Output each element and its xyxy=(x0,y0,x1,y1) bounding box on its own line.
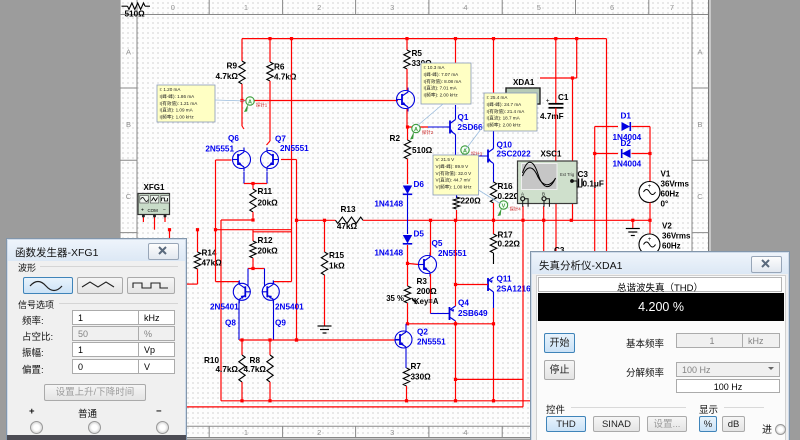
Q8 Q9 base link xyxy=(248,268,265,270)
resistor R8 xyxy=(269,340,271,355)
svg-text:I: 1.20 mA: I: 1.20 mA xyxy=(160,87,182,92)
svg-text:R7: R7 xyxy=(411,362,422,371)
svg-text:Q4: Q4 xyxy=(458,299,469,308)
note leader line xyxy=(215,100,246,101)
svg-text:XSC1: XSC1 xyxy=(541,150,562,159)
svg-text:R16: R16 xyxy=(498,182,513,191)
transistor Q5 2N5551 xyxy=(419,256,437,274)
oscilloscope feed wires xyxy=(522,206,524,220)
resistor R16 xyxy=(490,182,496,203)
svg-text:220Ω: 220Ω xyxy=(461,197,482,206)
svg-text:V(直流): 44.7 mV: V(直流): 44.7 mV xyxy=(436,177,472,184)
svg-text:B: B xyxy=(542,191,545,196)
svg-text:I(频率): 2.00 kHz: I(频率): 2.00 kHz xyxy=(487,121,522,128)
svg-text:探针1: 探针1 xyxy=(256,102,268,109)
svg-text:2SC2022: 2SC2022 xyxy=(497,150,532,159)
svg-text:+: + xyxy=(141,208,144,214)
svg-text:V(有效值): 32.0 V: V(有效值): 32.0 V xyxy=(436,170,473,177)
bottom rail upper xyxy=(221,400,532,402)
XDA1 instrument icon xyxy=(506,88,540,104)
svg-text:Key=A: Key=A xyxy=(414,297,439,306)
svg-text:36Vrms: 36Vrms xyxy=(662,232,691,241)
svg-text:D1: D1 xyxy=(621,112,632,121)
svg-text:510Ω: 510Ω xyxy=(412,146,433,155)
svg-text:I(峰-峰): 7.07 mA: I(峰-峰): 7.07 mA xyxy=(424,71,460,78)
svg-text:V1: V1 xyxy=(661,170,671,179)
svg-text:C3: C3 xyxy=(578,170,589,179)
svg-text:D6: D6 xyxy=(414,180,425,189)
svg-text:探针4: 探针4 xyxy=(510,206,522,213)
right column to sources xyxy=(649,127,651,182)
svg-text:60Hz: 60Hz xyxy=(662,242,681,251)
svg-text:0°: 0° xyxy=(661,200,669,209)
diode D2 xyxy=(595,153,618,155)
svg-text:+: + xyxy=(648,237,652,243)
vertical from rail to R12/XFG node xyxy=(291,39,293,282)
svg-text:Q9: Q9 xyxy=(275,319,286,328)
resistor R11 xyxy=(252,184,254,190)
svg-text:1N4004: 1N4004 xyxy=(613,160,642,169)
XFG1 function generator panel xyxy=(6,238,187,440)
svg-text:I(频率): 2.00 kHz: I(频率): 2.00 kHz xyxy=(424,91,459,98)
svg-text:+: + xyxy=(546,98,550,105)
svg-text:V(峰-峰): 89.9 V: V(峰-峰): 89.9 V xyxy=(436,163,470,170)
ground right xyxy=(632,220,634,228)
svg-text:R6: R6 xyxy=(274,63,285,72)
ground near R15 xyxy=(318,325,332,327)
transistor Q8 2N5401 xyxy=(233,283,250,300)
Q7 base column down to Q2 base wire xyxy=(281,159,297,161)
resistor R13 in mid rail xyxy=(297,219,336,221)
Q11 emitter down to bottom rail xyxy=(493,292,495,308)
svg-text:Q5: Q5 xyxy=(432,239,443,248)
svg-text:I(峰-峰): 1.86 mA: I(峰-峰): 1.86 mA xyxy=(160,93,196,100)
potentiometer R3 xyxy=(407,263,409,286)
wire to Q2 base xyxy=(239,339,395,341)
svg-text:V: V xyxy=(502,203,506,209)
resistor R14 xyxy=(197,230,199,252)
svg-text:60Hz: 60Hz xyxy=(661,190,680,199)
svg-text:6: 6 xyxy=(610,3,614,12)
svg-text:V2: V2 xyxy=(662,222,672,231)
svg-text:7: 7 xyxy=(670,3,674,12)
svg-text:20kΩ: 20kΩ xyxy=(258,247,279,256)
svg-text:2: 2 xyxy=(317,428,321,437)
output node wire xyxy=(408,323,494,325)
transistor input PNP xyxy=(397,91,415,109)
diode D6 xyxy=(403,186,412,195)
svg-text:4.7kΩ: 4.7kΩ xyxy=(216,72,239,81)
base wire to Q5 xyxy=(408,263,419,264)
svg-text:Q11: Q11 xyxy=(497,275,512,284)
svg-text:XDA1: XDA1 xyxy=(513,78,535,87)
Q6 base column / Q8 emitter xyxy=(216,159,232,161)
transistor Q6 2N5551 xyxy=(233,151,251,169)
svg-text:C: C xyxy=(126,192,132,201)
note probe voltage xyxy=(433,155,479,195)
svg-text:R8: R8 xyxy=(250,356,261,365)
note probe1 xyxy=(157,85,215,122)
svg-text:A: A xyxy=(248,99,252,105)
svg-text:Q1: Q1 xyxy=(458,113,469,122)
svg-text:I(有效值): 1.21 mA: I(有效值): 1.21 mA xyxy=(160,100,199,107)
svg-text:2SD66: 2SD66 xyxy=(458,123,483,132)
transistor Q9 2N5401 xyxy=(262,283,279,300)
svg-text:B: B xyxy=(126,120,131,129)
Q10 emitter to R16 xyxy=(493,164,495,183)
220 ohm resistor (label hidden) xyxy=(456,156,458,198)
probe 探针4 xyxy=(498,208,502,216)
svg-text:Q2: Q2 xyxy=(417,328,428,337)
svg-text:5: 5 xyxy=(537,3,541,12)
svg-text:R3: R3 xyxy=(417,277,428,286)
resistor R2 xyxy=(407,127,409,140)
Q5 collector to rail / emitter to Q4 base xyxy=(430,220,432,255)
transistor Q10 (2SC2022) xyxy=(487,150,489,163)
svg-text:XFG1: XFG1 xyxy=(144,183,165,192)
svg-text:A: A xyxy=(126,48,131,57)
svg-text:V: 21.5 V: V: 21.5 V xyxy=(436,157,456,162)
svg-text:0.22Ω: 0.22Ω xyxy=(498,240,521,249)
transistor Q1 (2SD66) xyxy=(449,121,451,134)
svg-text:36Vrms: 36Vrms xyxy=(661,180,690,189)
mid rail wire A xyxy=(363,219,650,221)
probe 探针1 xyxy=(244,104,248,112)
svg-text:4: 4 xyxy=(463,428,467,437)
emitter join wire of Q6 Q7 xyxy=(243,172,245,184)
svg-text:R17: R17 xyxy=(498,231,513,240)
svg-text:1N4148: 1N4148 xyxy=(374,200,403,209)
svg-text:2SB649: 2SB649 xyxy=(458,309,488,318)
svg-text:2N5551: 2N5551 xyxy=(205,145,234,154)
svg-text:I: 25.4 mA: I: 25.4 mA xyxy=(487,95,509,100)
svg-text:4: 4 xyxy=(463,3,467,12)
svg-text:4.7kΩ: 4.7kΩ xyxy=(274,73,297,82)
svg-text:4.7mF: 4.7mF xyxy=(540,112,564,121)
svg-text:0.1μF: 0.1μF xyxy=(583,180,604,189)
svg-text:R2: R2 xyxy=(390,134,401,143)
wire D-bridge column xyxy=(594,127,596,253)
source V2 xyxy=(639,234,660,255)
svg-text:Q10: Q10 xyxy=(497,141,513,150)
top supply rail xyxy=(242,38,607,40)
svg-text:Ext Trig: Ext Trig xyxy=(560,172,575,177)
svg-text:1: 1 xyxy=(244,428,248,437)
svg-text:2N5551: 2N5551 xyxy=(417,338,446,347)
resistor R7 xyxy=(405,351,407,368)
svg-text:I(直流): 1.09 mA: I(直流): 1.09 mA xyxy=(160,107,194,114)
C1 column xyxy=(555,39,557,103)
svg-text:1N4148: 1N4148 xyxy=(374,249,403,258)
svg-text:Q7: Q7 xyxy=(275,135,286,144)
svg-text:3: 3 xyxy=(390,3,394,12)
svg-text:COM: COM xyxy=(148,208,159,213)
XFG1 wiring xyxy=(142,216,144,222)
Q11 base from column xyxy=(456,284,489,286)
svg-text:C: C xyxy=(697,192,703,201)
bottom rail lower (XFG return) xyxy=(187,406,523,408)
510 ohm resistor top-left xyxy=(122,5,128,7)
wire XDA to C1 column xyxy=(540,77,577,79)
svg-text:I(峰-峰): 24.7 mA: I(峰-峰): 24.7 mA xyxy=(487,101,523,108)
svg-text:3: 3 xyxy=(390,428,394,437)
svg-text:V(频率): 1.00 kHz: V(频率): 1.00 kHz xyxy=(436,183,473,190)
svg-text:R13: R13 xyxy=(340,205,355,214)
resistor R17 xyxy=(493,220,495,234)
svg-text:D2: D2 xyxy=(621,139,632,148)
svg-text:2N5551: 2N5551 xyxy=(438,249,467,258)
svg-text:C1: C1 xyxy=(558,93,569,102)
transistor Q7 2N5551 xyxy=(261,151,279,169)
resistor R5 xyxy=(406,39,408,50)
Q10 collector to rail (behind note) xyxy=(493,39,495,93)
svg-text:2N5551: 2N5551 xyxy=(280,144,309,153)
svg-text:330Ω: 330Ω xyxy=(411,373,432,382)
node wire to input transistor base xyxy=(242,100,398,102)
svg-text:−: − xyxy=(163,208,166,214)
base wire to Q1 xyxy=(408,126,429,128)
XSC1 oscilloscope icon xyxy=(518,161,578,204)
ground right xyxy=(626,228,640,230)
sheet border frame xyxy=(120,14,709,16)
svg-text:20kΩ: 20kΩ xyxy=(258,199,279,208)
svg-text:2SA1216: 2SA1216 xyxy=(497,285,532,294)
svg-text:I(有效值): 21.4 mA: I(有效值): 21.4 mA xyxy=(487,108,526,115)
svg-text:2N5401: 2N5401 xyxy=(210,303,239,312)
svg-text:R5: R5 xyxy=(412,49,423,58)
svg-text:Q6: Q6 xyxy=(228,134,239,143)
wire B with R11 xyxy=(221,219,254,221)
svg-text:+: + xyxy=(648,184,652,190)
svg-text:2N5401: 2N5401 xyxy=(275,303,304,312)
svg-text:I(直流): 18.7 mA: I(直流): 18.7 mA xyxy=(487,115,521,122)
resistor R15 xyxy=(324,220,326,252)
diode D5 xyxy=(403,235,412,244)
resistor R6 xyxy=(269,39,271,62)
transistor Q4 (2SB649) xyxy=(449,307,451,320)
Q4 emitter down / y=379 wire xyxy=(455,321,457,401)
svg-text:4.7kΩ: 4.7kΩ xyxy=(244,365,267,374)
svg-text:R9: R9 xyxy=(227,62,238,71)
diode D1 xyxy=(595,126,618,128)
probe 探针3 xyxy=(459,153,463,161)
resistor R10 xyxy=(241,340,243,355)
Q1 collector up to rail xyxy=(455,39,457,63)
svg-text:1kΩ: 1kΩ xyxy=(329,262,345,271)
svg-text:R12: R12 xyxy=(258,236,273,245)
svg-text:47kΩ: 47kΩ xyxy=(337,222,358,231)
svg-text:R10: R10 xyxy=(204,356,219,365)
transistor Q11 (2SA1216) xyxy=(487,278,489,291)
transistor Q2 2N5551 xyxy=(395,331,412,348)
svg-text:A: A xyxy=(697,48,702,57)
svg-text:I(直流): 7.01 mA: I(直流): 7.01 mA xyxy=(424,85,458,92)
svg-text:I(频率): 1.00 kHz: I(频率): 1.00 kHz xyxy=(160,113,195,120)
note probe3 xyxy=(484,93,537,131)
ground mid-left xyxy=(324,275,326,326)
source V1 xyxy=(639,182,660,203)
Q1 emitter chain / Q10 base xyxy=(455,135,457,157)
svg-text:R11: R11 xyxy=(258,187,273,196)
svg-text:探针2: 探针2 xyxy=(422,129,434,136)
svg-text:510Ω: 510Ω xyxy=(125,10,146,19)
svg-text:47kΩ: 47kΩ xyxy=(202,259,223,268)
svg-text:35 %: 35 % xyxy=(386,294,404,303)
svg-text:2: 2 xyxy=(317,3,321,12)
svg-text:4.7kΩ: 4.7kΩ xyxy=(216,365,239,374)
svg-text:0: 0 xyxy=(171,3,175,12)
svg-text:I(有效值): 8.08 mA: I(有效值): 8.08 mA xyxy=(424,78,463,85)
Q4 collector column xyxy=(455,220,457,306)
svg-text:A: A xyxy=(463,148,467,154)
svg-text:1: 1 xyxy=(244,3,248,12)
resistor R12 xyxy=(252,230,254,241)
note probe2 xyxy=(421,63,471,104)
probe 探针2 xyxy=(410,132,414,140)
svg-text:I: 10.3 mA: I: 10.3 mA xyxy=(424,65,446,70)
svg-text:R14: R14 xyxy=(202,249,217,258)
resistor R9 xyxy=(241,39,243,61)
svg-text:Q8: Q8 xyxy=(225,319,236,328)
svg-text:A: A xyxy=(521,191,524,196)
XDA1 distortion analyzer panel xyxy=(530,251,790,440)
svg-text:A: A xyxy=(414,127,418,133)
Q8/Q9 collectors to lower wire xyxy=(238,301,240,341)
rail corner down right side xyxy=(606,39,608,252)
svg-text:R15: R15 xyxy=(329,251,344,260)
svg-text:D5: D5 xyxy=(414,230,425,239)
svg-text:200Ω: 200Ω xyxy=(417,287,438,296)
svg-text:B: B xyxy=(697,120,702,129)
